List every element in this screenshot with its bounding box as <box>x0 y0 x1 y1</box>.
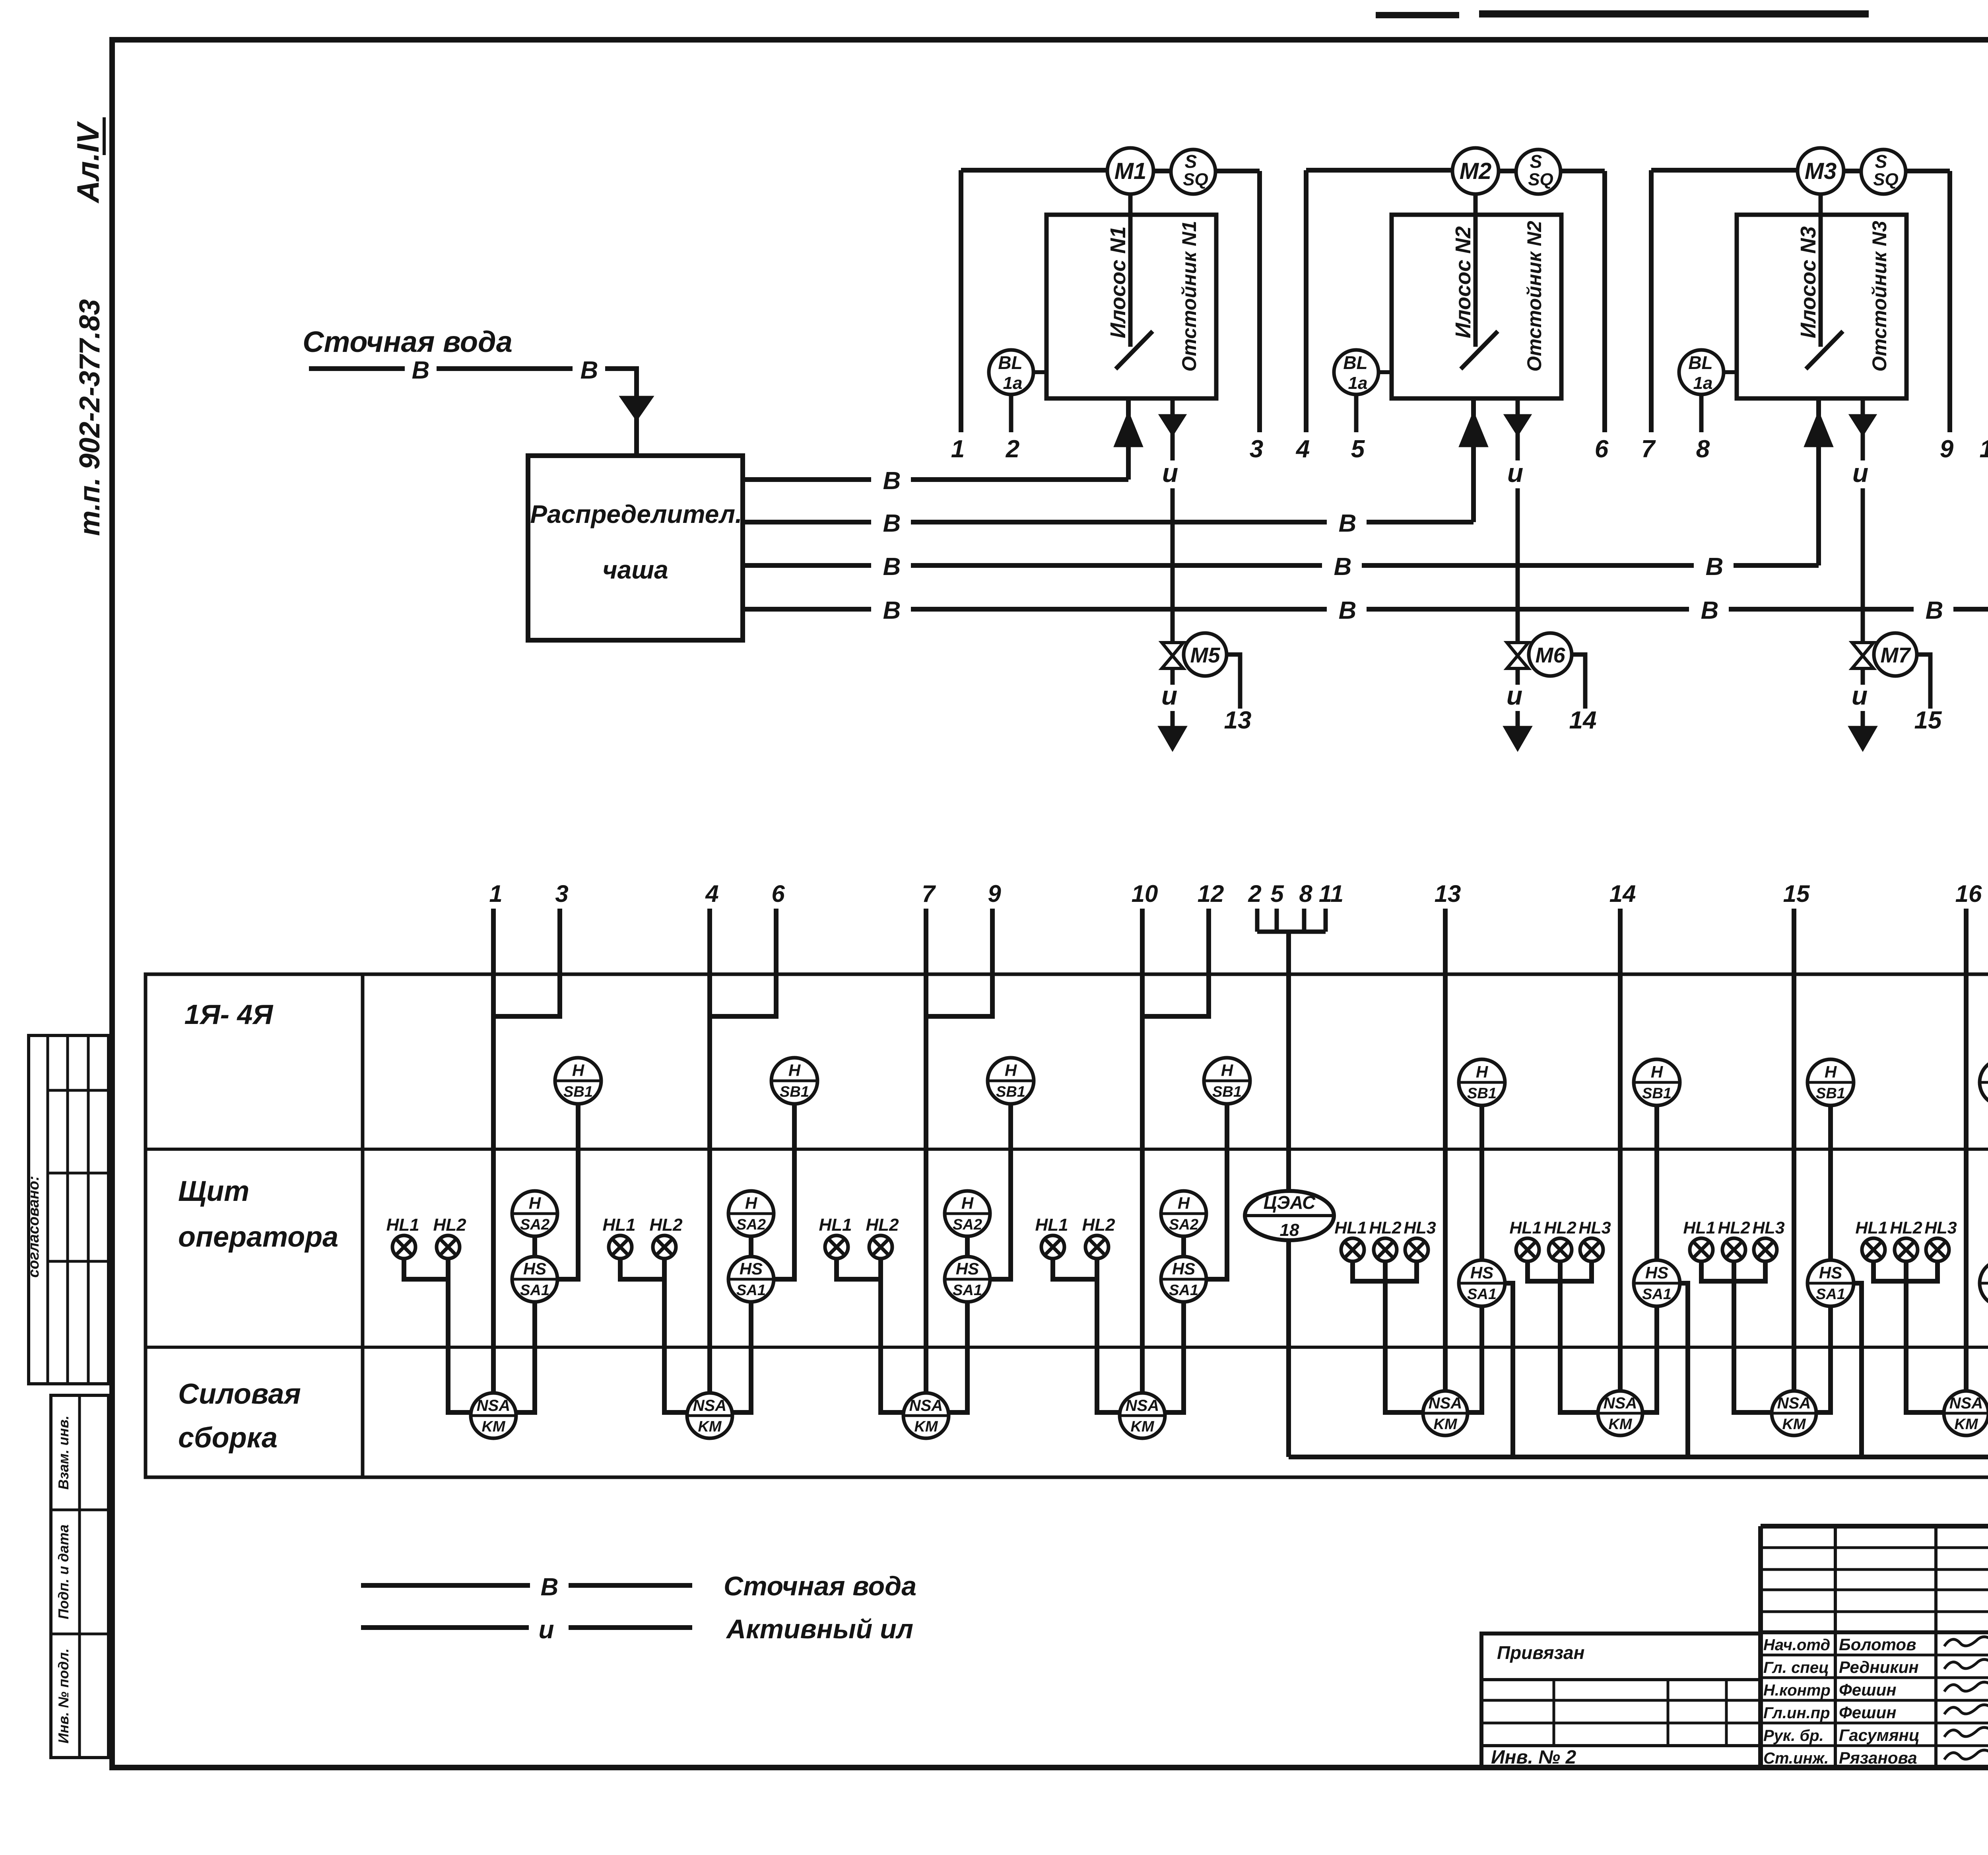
discharge arrow unit 2 <box>1506 728 1530 748</box>
svg-text:NSA: NSA <box>1429 1395 1462 1412</box>
svg-text:SB1: SB1 <box>1467 1085 1497 1102</box>
button circle H SB1 group 8 <box>1980 1059 1988 1105</box>
svg-text:Взам. инв.: Взам. инв. <box>55 1416 72 1490</box>
wire line 13 into table <box>1443 909 1448 1392</box>
switch circle HS SA1 group 2 <box>728 1257 774 1302</box>
wire line 3 vertical <box>1257 171 1262 432</box>
svg-text:SQ: SQ <box>1873 170 1899 189</box>
svg-text:SB1: SB1 <box>1212 1084 1242 1100</box>
wire SB1 stem group 4 <box>1207 1104 1227 1279</box>
signatures <box>1944 1637 1988 1646</box>
svg-text:HL3: HL3 <box>1924 1218 1957 1237</box>
wire line 2 stub <box>1009 394 1013 432</box>
wire HL3 link group 8 <box>1908 1261 1938 1281</box>
wire HL3 link group 6 <box>1562 1261 1592 1281</box>
svg-text:Щит: Щит <box>178 1175 249 1207</box>
wire top loop unit 3 <box>1651 168 1798 173</box>
svg-text:9: 9 <box>1940 435 1954 463</box>
wire SA2-SA1 link group 4 <box>1181 1235 1186 1257</box>
wire riser to tank 2 inlet <box>1471 445 1476 522</box>
valve motor circle M5 <box>1184 633 1227 676</box>
scraper line unit 3 <box>1806 331 1843 369</box>
wire drive shaft M3 <box>1819 194 1823 347</box>
lamp circle H SA2 group 4 <box>1161 1191 1206 1236</box>
svg-text:SB1: SB1 <box>780 1084 809 1100</box>
svg-text:чаша: чаша <box>602 556 668 584</box>
wire sludge line to valve unit 1 <box>1171 488 1175 643</box>
wire M6 tap to line 14 <box>1572 655 1585 709</box>
svg-text:В: В <box>883 597 901 624</box>
svg-text:Нач.отд: Нач.отд <box>1763 1636 1830 1654</box>
box Привязан <box>1481 1634 1761 1768</box>
svg-text:SA1: SA1 <box>1642 1286 1672 1303</box>
valve unit 2 <box>1507 643 1528 656</box>
wire HL1 link group 2 <box>620 1259 663 1279</box>
svg-text:BL: BL <box>1343 352 1367 373</box>
svg-text:HL1: HL1 <box>386 1215 419 1235</box>
svg-text:HL2: HL2 <box>1718 1218 1750 1237</box>
svg-text:SA1: SA1 <box>1169 1282 1198 1299</box>
switch circle HS SA1 group 6 <box>1634 1260 1680 1306</box>
svg-text:M2: M2 <box>1460 158 1492 184</box>
svg-text:H: H <box>1651 1062 1664 1081</box>
svg-text:14: 14 <box>1569 707 1597 734</box>
svg-text:SA1: SA1 <box>953 1282 982 1299</box>
svg-text:10: 10 <box>1132 880 1158 907</box>
wire line 4 into table <box>707 909 712 1393</box>
wire drive shaft M1 <box>1128 194 1133 347</box>
svg-text:и: и <box>1507 458 1523 488</box>
wire SA1 to starter group 4 <box>1165 1301 1184 1412</box>
svg-text:и: и <box>1507 681 1522 710</box>
svg-text:S: S <box>1875 151 1887 172</box>
wire B feed line to tank 3 <box>743 563 871 568</box>
svg-text:HL2: HL2 <box>1544 1218 1576 1237</box>
svg-text:Илосос N1: Илосос N1 <box>1106 226 1130 338</box>
wire source water line B <box>309 366 405 371</box>
svg-text:1a: 1a <box>1348 373 1368 393</box>
button circle H SB1 group 6 <box>1634 1059 1680 1105</box>
svg-text:1: 1 <box>489 880 502 907</box>
svg-text:В: В <box>1706 553 1724 581</box>
svg-text:2: 2 <box>1006 435 1019 463</box>
svg-text:В: В <box>883 467 901 495</box>
wire line 7 into table <box>924 909 928 1393</box>
wire M5 tap to line 13 <box>1227 655 1240 709</box>
svg-text:13: 13 <box>1224 707 1252 734</box>
svg-text:Ст.инж.: Ст.инж. <box>1763 1750 1829 1767</box>
wire B feed line to tank 1 <box>743 477 871 482</box>
wire source water elbow down <box>605 369 637 398</box>
tank Отстойник №2 <box>1392 215 1561 398</box>
svg-text:HS: HS <box>956 1259 979 1278</box>
svg-text:14: 14 <box>1609 880 1636 907</box>
svg-text:Гл. спец: Гл. спец <box>1763 1659 1829 1676</box>
wire line 9 vertical <box>1947 171 1952 432</box>
svg-text:10: 10 <box>1980 435 1988 463</box>
svg-text:и: и <box>1161 681 1177 710</box>
svg-text:HL1: HL1 <box>1683 1218 1715 1237</box>
switch circle HS SA1 group 7 <box>1807 1260 1854 1306</box>
wire line 6 jog <box>710 909 776 1016</box>
tank Отстойник №3 <box>1737 215 1906 398</box>
svg-text:HL2: HL2 <box>433 1215 466 1235</box>
scraper line unit 2 <box>1461 331 1498 369</box>
svg-text:SB1: SB1 <box>1816 1085 1845 1102</box>
wire M7 tap to line 15 <box>1917 655 1930 709</box>
wire BL to tank unit 3 <box>1724 370 1737 374</box>
svg-text:HL2: HL2 <box>1082 1215 1115 1235</box>
sensor circle BL/1a unit 3 <box>1679 350 1724 394</box>
svg-text:M6: M6 <box>1535 643 1565 667</box>
svg-text:M3: M3 <box>1805 158 1837 184</box>
wire sludge below valve unit 2 <box>1516 668 1520 685</box>
svg-text:Болотов: Болотов <box>1839 1635 1916 1654</box>
svg-text:Илосос N2: Илосос N2 <box>1451 226 1475 338</box>
wire HL1 link group 7 <box>1701 1261 1732 1281</box>
table row line 2 <box>146 1346 1988 1349</box>
wire line 4 vertical <box>1304 170 1309 432</box>
svg-text:согласовано:: согласовано: <box>25 1176 42 1278</box>
starter circle NSA KM group 6 <box>1598 1391 1642 1435</box>
wire BL to tank unit 2 <box>1378 370 1392 374</box>
wire SB1 stem group 2 <box>775 1104 794 1279</box>
button circle H SB1 group 1 <box>555 1058 601 1104</box>
svg-text:NSA: NSA <box>1949 1395 1983 1412</box>
svg-text:HS: HS <box>523 1259 546 1278</box>
svg-text:KM: KM <box>1608 1416 1632 1433</box>
switch circle HS SA1 group 5 <box>1459 1260 1505 1306</box>
margin box Согласовано <box>29 1035 109 1384</box>
wire SA1 to starter group 6 <box>1642 1306 1657 1412</box>
svg-text:H: H <box>1178 1194 1190 1212</box>
wire SA1 tap to sensor bus group 6 <box>1679 1283 1688 1457</box>
svg-text:SA2: SA2 <box>520 1216 549 1233</box>
wire SB1 stem group 5 <box>1479 1105 1484 1261</box>
svg-text:В: В <box>1926 597 1943 624</box>
wire into distribution bowl <box>634 417 639 456</box>
svg-text:1a: 1a <box>1003 373 1023 393</box>
wire common sensor line <box>1286 932 1291 1457</box>
svg-text:NSA: NSA <box>909 1397 943 1414</box>
wire riser to tank 3 inlet <box>1816 445 1821 565</box>
switch circle HS SA1 group 4 <box>1161 1257 1206 1302</box>
wire HL2 to starter group 3 <box>881 1259 903 1412</box>
wire HL1 link group 5 <box>1353 1261 1384 1281</box>
svg-text:оператора: оператора <box>178 1221 338 1253</box>
wire line 16 into table <box>1964 909 1969 1392</box>
inlet arrow tank 1 <box>1116 415 1141 445</box>
wire HL1 link group 8 <box>1873 1261 1905 1281</box>
inlet arrow tank 2 <box>1461 415 1486 445</box>
motor circle M2 <box>1452 148 1499 194</box>
svg-text:9: 9 <box>988 880 1001 907</box>
relay oval ЦЭАС/18 <box>1245 1191 1334 1240</box>
wire sludge line to valve unit 3 <box>1861 488 1865 643</box>
svg-text:H: H <box>788 1061 801 1080</box>
wire HL3 link group 5 <box>1387 1261 1417 1281</box>
wire HL2 to starter group 6 <box>1560 1261 1598 1412</box>
svg-text:1: 1 <box>951 435 965 463</box>
wire HL2 to starter group 2 <box>664 1259 687 1412</box>
sludge outlet arrow unit 3 <box>1861 399 1865 416</box>
wire HL2 to starter group 4 <box>1097 1259 1120 1412</box>
legend line B <box>361 1583 530 1588</box>
wire HL1 link group 1 <box>404 1259 447 1279</box>
svg-text:KM: KM <box>1130 1418 1154 1435</box>
svg-text:В: В <box>580 357 598 384</box>
svg-text:Н.контр: Н.контр <box>1763 1682 1831 1699</box>
svg-text:SQ: SQ <box>1528 170 1553 189</box>
svg-text:HL3: HL3 <box>1404 1218 1436 1237</box>
svg-text:4: 4 <box>1295 435 1310 463</box>
wire SB1 stem group 6 <box>1654 1105 1659 1261</box>
svg-text:15: 15 <box>1783 880 1810 907</box>
svg-text:Редникин: Редникин <box>1839 1658 1919 1676</box>
button circle H SB1 group 7 <box>1807 1059 1854 1105</box>
svg-text:5: 5 <box>1351 435 1365 463</box>
wire line 14 into table <box>1618 909 1623 1392</box>
tank Отстойник №1 <box>1046 215 1216 398</box>
svg-text:HL2: HL2 <box>649 1215 683 1235</box>
svg-text:Илосос N3: Илосос N3 <box>1796 226 1820 338</box>
wire HL2 to starter group 7 <box>1734 1261 1772 1412</box>
svg-text:15: 15 <box>1914 707 1942 734</box>
svg-text:Силовая: Силовая <box>178 1378 301 1410</box>
starter circle NSA KM group 4 <box>1120 1393 1165 1438</box>
wire sludge line upper unit 1 <box>1171 433 1175 460</box>
button circle H SB1 group 5 <box>1459 1059 1505 1105</box>
svg-text:6: 6 <box>771 880 785 907</box>
wire riser to tank 1 inlet <box>1126 445 1131 480</box>
wire merge bracket 2 5 8 11 <box>1257 930 1326 934</box>
sludge outlet arrow unit 2 <box>1516 399 1520 416</box>
block Распределительная чаша <box>528 456 743 640</box>
svg-text:H: H <box>1476 1062 1489 1081</box>
wire sludge line upper unit 3 <box>1861 433 1865 460</box>
wire line 8 stub <box>1699 394 1704 432</box>
inlet arrow tank 3 <box>1806 415 1831 445</box>
svg-text:S: S <box>1530 151 1542 172</box>
svg-text:HS: HS <box>1645 1263 1668 1282</box>
wire sludge line upper unit 2 <box>1516 433 1520 460</box>
svg-text:KM: KM <box>914 1418 938 1435</box>
svg-text:S: S <box>1185 151 1197 172</box>
flow arrow into distribution bowl <box>622 398 651 418</box>
привязан rows <box>1481 1678 1761 1681</box>
wire line 1 vertical <box>959 170 963 432</box>
svg-text:Инв. № подл.: Инв. № подл. <box>55 1648 72 1743</box>
svg-text:KM: KM <box>1954 1416 1978 1433</box>
wire HL2 to starter group 8 <box>1906 1261 1944 1412</box>
svg-text:H: H <box>1825 1062 1837 1081</box>
svg-text:NSA: NSA <box>1777 1395 1811 1412</box>
svg-text:SA1: SA1 <box>1816 1286 1845 1303</box>
wire SA1 to starter group 1 <box>516 1301 535 1412</box>
svg-text:4: 4 <box>705 880 718 907</box>
starter circle NSA KM group 1 <box>471 1393 516 1438</box>
lamp circle H SA2 group 1 <box>512 1191 557 1236</box>
wire sludge discharge unit 3 <box>1861 711 1865 728</box>
svg-text:H: H <box>1005 1061 1017 1080</box>
svg-text:NSA: NSA <box>477 1397 510 1414</box>
valve motor circle M6 <box>1529 633 1572 676</box>
svg-text:7: 7 <box>1641 435 1656 463</box>
wire SB1 stem group 1 <box>558 1104 578 1279</box>
svg-text:8: 8 <box>1696 435 1710 463</box>
svg-text:1a: 1a <box>1693 373 1713 393</box>
svg-text:В: В <box>1339 510 1357 537</box>
svg-text:SB1: SB1 <box>563 1084 593 1100</box>
svg-text:HL2: HL2 <box>866 1215 899 1235</box>
starter circle NSA KM group 3 <box>903 1393 949 1438</box>
svg-text:HL1: HL1 <box>602 1215 635 1235</box>
sensor circle BL/1a unit 1 <box>989 350 1033 394</box>
valve motor circle M7 <box>1874 633 1917 676</box>
wire drive shaft M2 <box>1474 194 1478 347</box>
wire line 6 vertical <box>1602 171 1607 432</box>
svg-text:SQ: SQ <box>1183 170 1208 189</box>
svg-text:Сточная вода: Сточная вода <box>303 325 513 358</box>
svg-text:KM: KM <box>1782 1416 1806 1433</box>
svg-text:KM: KM <box>1433 1416 1457 1433</box>
wire HL2 to starter group 1 <box>448 1259 471 1412</box>
wire SB1 stem group 7 <box>1828 1105 1833 1261</box>
wire SA2-SA1 link group 3 <box>965 1235 970 1257</box>
svg-text:HL2: HL2 <box>1890 1218 1922 1237</box>
wire SB1 stem group 3 <box>991 1104 1011 1279</box>
svg-text:Инв. № 2: Инв. № 2 <box>1491 1747 1576 1768</box>
wire B feed line to tank 4 <box>743 607 871 612</box>
svg-text:Привязан: Привязан <box>1497 1642 1584 1663</box>
svg-text:В: В <box>1334 553 1352 581</box>
wire sludge line to valve unit 2 <box>1516 488 1520 643</box>
svg-text:Подп. и дата: Подп. и дата <box>55 1525 72 1619</box>
starter circle NSA KM group 2 <box>687 1393 732 1438</box>
valve unit 1 <box>1162 643 1183 656</box>
title block left columns <box>1834 1526 1837 1768</box>
svg-text:HL1: HL1 <box>1855 1218 1887 1237</box>
wire SA1 to starter group 3 <box>949 1301 967 1412</box>
svg-text:В: В <box>1339 597 1357 624</box>
svg-text:H: H <box>1221 1061 1234 1080</box>
svg-text:SA2: SA2 <box>736 1216 766 1233</box>
svg-text:В: В <box>883 553 901 581</box>
svg-text:H: H <box>572 1061 585 1080</box>
wire sludge below valve unit 3 <box>1861 668 1865 685</box>
svg-text:SA1: SA1 <box>1467 1286 1497 1303</box>
wire HL1 link group 4 <box>1053 1259 1095 1279</box>
button circle H SB1 group 4 <box>1204 1058 1250 1104</box>
switch circle S SQ unit 1 <box>1171 150 1215 194</box>
wire line 10 into table <box>1140 909 1145 1393</box>
svg-text:и: и <box>1852 681 1868 710</box>
svg-text:HL1: HL1 <box>1334 1218 1367 1237</box>
wire sludge below valve unit 1 <box>1171 668 1175 685</box>
wire lines 2 5 8 11 stubs <box>1255 909 1260 932</box>
title block row B bottom / description top <box>1761 1630 1988 1634</box>
svg-text:H: H <box>961 1194 974 1212</box>
switch circle HS SA1 group 1 <box>512 1257 557 1302</box>
svg-text:H: H <box>529 1194 542 1212</box>
svg-text:HL1: HL1 <box>1509 1218 1541 1237</box>
svg-text:5: 5 <box>1270 880 1284 907</box>
svg-text:6: 6 <box>1595 435 1609 463</box>
svg-text:Рук. бр.: Рук. бр. <box>1763 1727 1824 1744</box>
discharge arrow unit 3 <box>1851 728 1875 748</box>
svg-text:Гл.ин.пр: Гл.ин.пр <box>1763 1704 1830 1722</box>
svg-text:SA1: SA1 <box>736 1282 766 1299</box>
svg-text:HL2: HL2 <box>1369 1218 1401 1237</box>
switch circle HS SA1 group 3 <box>945 1257 990 1302</box>
svg-text:2: 2 <box>1248 880 1261 907</box>
switch circle S SQ unit 2 <box>1516 150 1561 194</box>
svg-text:Ал.IV: Ал.IV <box>70 121 105 204</box>
starter circle NSA KM group 8 <box>1944 1391 1988 1435</box>
wire line 9 jog <box>926 909 992 1016</box>
wire SA2-SA1 link group 2 <box>749 1235 753 1257</box>
svg-text:HS: HS <box>1172 1259 1195 1278</box>
svg-text:Отстойник N1: Отстойник N1 <box>1178 221 1200 371</box>
top edge scan smudge <box>1376 12 1459 18</box>
svg-text:H: H <box>745 1194 758 1212</box>
margin strip Взам.инв / Подп.и дата / Инв.№ подл. <box>51 1395 109 1758</box>
svg-text:M1: M1 <box>1114 158 1147 184</box>
svg-text:SA1: SA1 <box>520 1282 549 1299</box>
svg-text:12: 12 <box>1198 880 1224 907</box>
table row line 1 <box>146 1148 1988 1151</box>
svg-text:M5: M5 <box>1190 643 1220 667</box>
svg-text:В: В <box>412 357 430 384</box>
title block revision rows <box>1761 1546 1988 1549</box>
wire line 5 stub <box>1354 394 1359 432</box>
wire SA1 to starter group 7 <box>1816 1306 1831 1412</box>
svg-text:Распределител.: Распределител. <box>530 500 742 528</box>
svg-text:Отстойник N2: Отстойник N2 <box>1523 221 1545 371</box>
svg-text:Отстойник N3: Отстойник N3 <box>1868 221 1891 371</box>
motor circle M3 <box>1798 148 1844 194</box>
svg-text:13: 13 <box>1435 880 1461 907</box>
starter circle NSA KM group 7 <box>1772 1391 1816 1435</box>
valve unit 3 <box>1852 643 1873 656</box>
wire SA1 tap to sensor bus group 7 <box>1853 1283 1862 1457</box>
wire B feed line to tank 2 <box>743 520 871 524</box>
lamp circle H SA2 group 3 <box>945 1191 990 1236</box>
svg-text:В: В <box>1701 597 1719 624</box>
title block name rows <box>1761 1654 1988 1657</box>
starter circle NSA KM group 5 <box>1423 1391 1468 1435</box>
wire SA1 to starter group 2 <box>732 1301 751 1412</box>
svg-text:M7: M7 <box>1880 643 1911 667</box>
wire line 1 into table <box>491 909 496 1393</box>
wire sludge discharge unit 2 <box>1516 711 1520 728</box>
wire line 15 into table <box>1792 909 1796 1392</box>
svg-text:11: 11 <box>1319 880 1343 907</box>
svg-text:Гасумянц: Гасумянц <box>1839 1726 1920 1744</box>
switch circle HS SA1 group 8 <box>1980 1260 1988 1306</box>
svg-text:BL: BL <box>998 352 1022 373</box>
svg-text:ЦЭАС: ЦЭАС <box>1264 1192 1316 1213</box>
wire HL1 link group 6 <box>1528 1261 1559 1281</box>
svg-text:3: 3 <box>1250 435 1263 463</box>
svg-text:В: В <box>541 1573 559 1601</box>
svg-text:8: 8 <box>1299 880 1312 907</box>
svg-text:Фешин: Фешин <box>1839 1703 1897 1722</box>
svg-text:7: 7 <box>922 880 936 907</box>
wire sludge discharge unit 1 <box>1171 711 1175 728</box>
svg-text:и: и <box>1852 458 1868 488</box>
wire source water line segment 2 <box>437 366 573 371</box>
